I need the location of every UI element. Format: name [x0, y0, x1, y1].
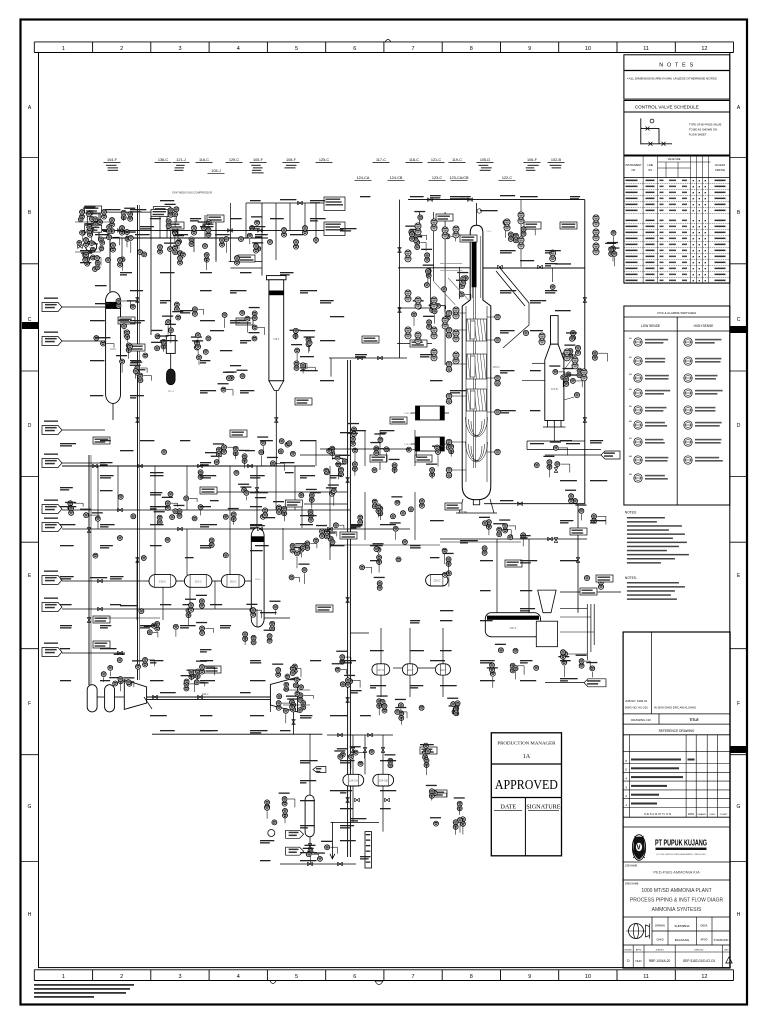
- valves: [118, 228, 123, 232]
- svg-text:124-CA: 124-CA: [357, 176, 370, 180]
- svg-text:APVD: APVD: [636, 948, 642, 951]
- svg-text:SIGNATURE: SIGNATURE: [526, 804, 561, 811]
- svg-text:122-C: 122-C: [502, 176, 513, 180]
- approval row with projection symbol: [623, 916, 730, 918]
- svg-text:ORIFICE: ORIFICE: [715, 169, 725, 172]
- svg-text:106-F: 106-F: [527, 158, 538, 162]
- reference drawing row: [623, 734, 730, 736]
- svg-text:106-F: 106-F: [510, 626, 517, 630]
- lower connectors: [309, 734, 311, 771]
- issue row: [623, 944, 730, 946]
- main pipe runs: [85, 229, 332, 231]
- svg-text:DRAWN: DRAWN: [698, 813, 707, 816]
- svg-text:123-CA/CB: 123-CA/CB: [449, 176, 469, 180]
- exchangers 117/118/119-C: [372, 664, 390, 675]
- svg-text:B: B: [28, 210, 32, 216]
- svg-text:130-C: 130-C: [159, 579, 166, 583]
- svg-text:DWG NO: DWG NO: [694, 949, 704, 951]
- svg-text:4: 4: [237, 46, 240, 52]
- svg-text:8: 8: [470, 974, 473, 980]
- svg-text:CHKD: CHKD: [656, 938, 663, 942]
- svg-text:117-C: 117-C: [377, 668, 384, 672]
- svg-text:A3: A3: [629, 373, 632, 376]
- svg-text:104-F: 104-F: [110, 348, 117, 351]
- svg-text:RBP-1004A-20: RBP-1004A-20: [649, 959, 671, 963]
- svg-text:PCS & ALARMS SWITCHES: PCS & ALARMS SWITCHES: [658, 311, 697, 315]
- svg-text:B: B: [737, 210, 741, 216]
- svg-text:C: C: [737, 317, 741, 323]
- svg-text:136-C: 136-C: [158, 158, 169, 162]
- tiny pipe labels: [140, 226, 154, 227]
- svg-text:DATE: DATE: [500, 804, 516, 811]
- svg-text:A9: A9: [629, 473, 632, 476]
- svg-text:CHKD: CHKD: [709, 814, 716, 816]
- svg-text:INSTRUMENT: INSTRUMENT: [625, 164, 642, 167]
- svg-text:FLOW SHEET: FLOW SHEET: [689, 133, 707, 137]
- svg-text:IN SIGN DWG DRC AW KUJANG: IN SIGN DWG DRC AW KUJANG: [654, 706, 696, 710]
- top grid strip: [34, 41, 733, 43]
- fold marks: [22, 322, 39, 329]
- svg-text:NO: NO: [648, 169, 652, 172]
- 102-B connections: [532, 362, 545, 364]
- svg-text:3: 3: [625, 785, 627, 789]
- control valve table: [624, 156, 730, 283]
- svg-text:TYPE OF BY-PASS VALVE: TYPE OF BY-PASS VALVE: [689, 123, 722, 127]
- compressor bubble 104-J: [86, 241, 97, 252]
- svg-text:APVD: APVD: [700, 938, 707, 942]
- svg-text:10: 10: [585, 46, 591, 52]
- svg-text:5: 5: [295, 46, 298, 52]
- svg-text:108-F: 108-F: [286, 158, 297, 162]
- cyclone funnel: [538, 590, 556, 613]
- converter catalyst beds: [467, 319, 487, 341]
- svg-text:NO: NO: [632, 169, 636, 172]
- svg-text:LOW SENSE: LOW SENSE: [641, 324, 660, 328]
- svg-text:SUPRIBNA: SUPRIBNA: [674, 924, 689, 928]
- notes box top right: [624, 55, 730, 99]
- company logo emblem: [632, 835, 645, 861]
- svg-text:DRAWING NO: DRAWING NO: [631, 718, 651, 722]
- top revision balloon between 6 and 7: [385, 40, 391, 43]
- svg-text:DWG NO. KU-201: DWG NO. KU-201: [625, 706, 648, 710]
- svg-text:125-C: 125-C: [319, 158, 330, 162]
- svg-text:6: 6: [625, 759, 627, 763]
- revision table: [628, 735, 630, 817]
- svg-text:E: E: [737, 573, 741, 579]
- svg-text:11: 11: [643, 974, 649, 980]
- svg-text:7: 7: [412, 46, 415, 52]
- svg-text:TITLE: TITLE: [689, 718, 699, 722]
- svg-text:VALVE SIZE: VALVE SIZE: [668, 158, 681, 161]
- title block outer: [623, 632, 730, 968]
- svg-text:121-J: 121-J: [168, 390, 175, 393]
- job/dwg no sub-box: [650, 632, 652, 714]
- exchanger drops 117/118/119: [380, 628, 382, 640]
- svg-text:ACCESS: ACCESS: [715, 164, 726, 167]
- svg-text:9: 9: [528, 974, 531, 980]
- svg-text:A5: A5: [629, 405, 632, 408]
- svg-text:120-C: 120-C: [433, 579, 440, 583]
- inlet/outlet stream flags: [42, 303, 62, 312]
- svg-text:HIGH SENSE: HIGH SENSE: [694, 324, 714, 328]
- compressor 103-J casings: [124, 680, 146, 710]
- svg-text:PROCESS PIPING & INST FLOW DIA: PROCESS PIPING & INST FLOW DIAGR: [630, 898, 724, 904]
- svg-text:105-J: 105-J: [211, 169, 221, 173]
- svg-text:PED-P&ID AMMONIA KIA: PED-P&ID AMMONIA KIA: [653, 870, 700, 875]
- bypass valve sketch box: [624, 112, 730, 155]
- drawing no / title row: [623, 723, 730, 725]
- svg-text:DWG NAME: DWG NAME: [625, 883, 639, 886]
- svg-text:TO BE AS SHOWN ON: TO BE AS SHOWN ON: [689, 128, 717, 132]
- svg-text:A7: A7: [629, 437, 632, 440]
- svg-text:• ALL DIMENSIONS ARE IN MM, UN: • ALL DIMENSIONS ARE IN MM, UNLESS OTHER…: [627, 77, 718, 81]
- exchanger 120-C: [426, 575, 448, 586]
- comb verticals top block: [109, 238, 111, 292]
- svg-text:118-C: 118-C: [409, 158, 419, 162]
- svg-text:119-C: 119-C: [440, 668, 447, 672]
- svg-text:SYNTHESIS GAS COMPRESSOR: SYNTHESIS GAS COMPRESSOR: [172, 191, 212, 195]
- svg-text:123-CA: 123-CA: [404, 412, 412, 415]
- svg-text:102-B: 102-B: [551, 158, 562, 162]
- svg-text:105-D: 105-D: [480, 158, 491, 162]
- fine print notes bottom left: [34, 984, 134, 986]
- svg-text:APPROVED: APPROVED: [495, 777, 558, 792]
- svg-text:10: 10: [585, 974, 591, 980]
- svg-text:1A: 1A: [523, 754, 531, 760]
- svg-text:F: F: [28, 701, 31, 707]
- company box: [623, 826, 730, 828]
- svg-text:ISSUED: ISSUED: [624, 949, 632, 951]
- converter bottom arcs: [466, 417, 488, 437]
- svg-text:6: 6: [353, 46, 356, 52]
- converter center rod: [472, 236, 477, 287]
- left margin row ticks and letters: [22, 156, 39, 158]
- svg-text:3: 3: [178, 974, 181, 980]
- svg-text:JOB NO: JOB NO: [656, 949, 664, 951]
- svg-text:7: 7: [412, 974, 415, 980]
- svg-text:126-F: 126-F: [255, 579, 261, 581]
- svg-text:103-J: 103-J: [202, 692, 209, 696]
- svg-text:DRAWN: DRAWN: [655, 924, 665, 928]
- svg-text:GEP-5182-01/D-02-C6: GEP-5182-01/D-02-C6: [683, 959, 716, 963]
- dwg name box: [623, 879, 730, 881]
- ejector column: [365, 832, 372, 868]
- svg-text:2: 2: [625, 794, 627, 798]
- suction filters: [87, 685, 97, 712]
- svg-text:A2: A2: [629, 356, 632, 359]
- svg-text:12: 12: [701, 46, 707, 52]
- svg-text:1: 1: [62, 974, 65, 980]
- instrument label boxes: [85, 206, 102, 213]
- instrument bubbles: [88, 210, 93, 215]
- vessel 108-F: [267, 276, 287, 280]
- flag stub lines: [62, 306, 105, 308]
- job name row: [623, 861, 730, 863]
- svg-text:8: 8: [470, 46, 473, 52]
- converter side bubbles: [446, 310, 452, 316]
- svg-text:3: 3: [178, 46, 181, 52]
- svg-text:CONTROL VALVE SCHEDULE: CONTROL VALVE SCHEDULE: [635, 105, 699, 110]
- exchanger row 130/131/132-C: [149, 575, 176, 588]
- svg-text:4: 4: [237, 974, 240, 980]
- main vertical headers: [137, 205, 139, 680]
- double line compressor shaft main: [142, 696, 271, 698]
- exchangers 123-CA/CB: [416, 406, 445, 420]
- svg-text:JOB NAME: JOB NAME: [625, 865, 638, 868]
- svg-text:117-C: 117-C: [376, 158, 386, 162]
- svg-text:PRODUCTION MANAGER: PRODUCTION MANAGER: [497, 741, 556, 746]
- svg-text:AMMONIA SYNTESIS: AMMONIA SYNTESIS: [652, 907, 702, 913]
- svg-text:6: 6: [353, 974, 356, 980]
- svg-text:CLIENT: CLIENT: [720, 814, 728, 816]
- boiler 102-B: [551, 316, 559, 345]
- svg-text:(JL PHN GARDEN RAYA JAWA BARAT: (JL PHN GARDEN RAYA JAWA BARAT - BANDUNG…: [656, 853, 706, 856]
- svg-text:1: 1: [62, 46, 65, 52]
- right side flags: [584, 679, 606, 687]
- svg-text:DESA: DESA: [700, 924, 707, 928]
- svg-text:131-C: 131-C: [195, 579, 202, 583]
- svg-text:123-CB: 123-CB: [404, 444, 412, 446]
- svg-text:2: 2: [120, 974, 123, 980]
- svg-text:124-CB: 124-CB: [390, 176, 403, 180]
- svg-text:G: G: [28, 804, 32, 810]
- vessel 126-F: [251, 528, 264, 627]
- svg-text:D E S C R I P T I O N: D E S C R I P T I O N: [644, 812, 671, 816]
- horizontal drum 106-F: [485, 613, 540, 637]
- svg-text:102-B: 102-B: [551, 387, 558, 391]
- svg-text:A: A: [737, 105, 741, 111]
- vessel 104-F: [106, 292, 121, 404]
- svg-text:129-C: 129-C: [229, 158, 240, 162]
- svg-text:108-F: 108-F: [273, 338, 280, 341]
- compressor 121-J: [166, 336, 175, 354]
- mid band extra density: [120, 450, 134, 451]
- svg-text:NHO: NHO: [635, 959, 642, 963]
- right mid vertical bundle: [586, 604, 588, 660]
- svg-text:REFERENCE DRAWING: REFERENCE DRAWING: [659, 729, 695, 733]
- converter bottom nozzle and skirt: [473, 500, 479, 505]
- control valve schedule header: [624, 101, 730, 113]
- svg-text:105-C: 105-C: [486, 231, 492, 233]
- converter inlet diagonals right: [500, 268, 529, 303]
- svg-text:9: 9: [528, 46, 531, 52]
- svg-text:A4: A4: [629, 388, 632, 391]
- svg-text:G: G: [737, 804, 741, 810]
- svg-text:N O T E S: N O T E S: [659, 63, 694, 69]
- svg-text:H: H: [28, 912, 32, 918]
- svg-text:A6: A6: [629, 420, 632, 423]
- svg-text:NOTES:: NOTES:: [625, 576, 637, 580]
- svg-text:132-C: 132-C: [229, 579, 236, 583]
- bypass valve sketch: [640, 118, 642, 144]
- svg-text:1000 MT/SD AMMONIA PLANT: 1000 MT/SD AMMONIA PLANT: [641, 888, 711, 894]
- drums 124-CA/CB bottom: [343, 774, 364, 786]
- svg-text:2: 2: [120, 46, 123, 52]
- svg-text:NOTES:: NOTES:: [625, 511, 637, 515]
- ammonia converter 105-D: [462, 225, 491, 500]
- svg-text:E: E: [28, 573, 32, 579]
- alarms & switches box: [624, 306, 730, 505]
- svg-text:D: D: [28, 423, 32, 429]
- svg-text:124-CB: 124-CB: [379, 778, 388, 782]
- svg-text:SYAMSUDIN: SYAMSUDIN: [714, 939, 729, 942]
- dense hotspots: [78, 217, 83, 222]
- svg-text:F: F: [737, 701, 740, 707]
- approved stamp box: [491, 733, 561, 856]
- hp flags top middle: [324, 197, 345, 211]
- right margin row ticks and letters: [730, 156, 747, 158]
- svg-text:12: 12: [701, 974, 707, 980]
- drum 107-F: [305, 795, 314, 837]
- svg-text:104-F: 104-F: [107, 158, 118, 162]
- svg-text:REV: REV: [724, 949, 729, 951]
- arrow down bottom: [330, 850, 335, 859]
- svg-text:5: 5: [295, 974, 298, 980]
- svg-text:HP BC: HP BC: [461, 512, 468, 514]
- bottom pointed flags: [286, 830, 304, 838]
- svg-text:105-F: 105-F: [253, 158, 264, 162]
- svg-text:BAASANG: BAASANG: [675, 938, 690, 942]
- line y268 right of converter: [483, 267, 585, 269]
- svg-text:A: A: [28, 105, 32, 111]
- bottom grid strip: [34, 969, 733, 971]
- svg-text:JOB NO. 5182-01: JOB NO. 5182-01: [625, 699, 648, 703]
- svg-text:1: 1: [625, 803, 627, 807]
- svg-text:119-C: 119-C: [452, 158, 462, 162]
- svg-text:A1: A1: [629, 337, 632, 340]
- svg-text:4: 4: [625, 777, 627, 781]
- stacked bubble columns mid: [405, 250, 411, 256]
- svg-text:A8: A8: [629, 455, 632, 458]
- inlet diagonals to converter: [448, 278, 470, 301]
- svg-text:H: H: [737, 912, 741, 918]
- svg-text:118-C: 118-C: [407, 668, 414, 672]
- svg-text:121-J: 121-J: [176, 158, 186, 162]
- svg-text:121-C: 121-C: [431, 158, 442, 162]
- svg-text:124-CA: 124-CA: [349, 778, 358, 782]
- svg-text:5: 5: [625, 768, 627, 772]
- mid band verticals: [154, 466, 156, 529]
- svg-text:PT PUPUK KUJANG: PT PUPUK KUJANG: [655, 839, 707, 848]
- svg-text:123-C: 123-C: [432, 176, 443, 180]
- third angle projection symbol: [629, 924, 644, 939]
- svg-text:D: D: [737, 423, 741, 429]
- svg-text:O: O: [627, 959, 630, 963]
- svg-text:DATE: DATE: [688, 813, 695, 816]
- svg-text:11: 11: [643, 46, 649, 52]
- svg-text:LINE: LINE: [648, 164, 654, 167]
- svg-text:105-D: 105-D: [492, 365, 499, 369]
- extra top-left density: [80, 210, 85, 215]
- svg-text:116-C: 116-C: [199, 158, 209, 162]
